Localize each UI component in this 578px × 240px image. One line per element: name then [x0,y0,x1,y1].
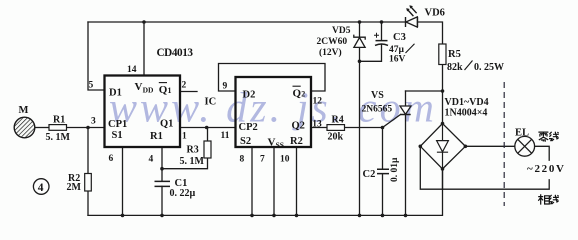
svg-text:~220V: ~220V [527,163,564,175]
svg-text:20k: 20k [328,132,344,143]
svg-text:11: 11 [221,131,230,141]
LED VD6 [417,17,419,27]
svg-text:C2: C2 [363,169,376,180]
svg-text:2M: 2M [67,182,82,193]
svg-text:Q1: Q1 [160,118,173,129]
svg-text:Q2: Q2 [292,121,305,132]
svg-text:1: 1 [182,132,187,142]
svg-text:V: V [268,136,276,148]
svg-text:CD4013: CD4013 [157,47,194,59]
svg-text:13: 13 [312,119,322,129]
wire lamp to neutral hook [535,146,550,160]
svg-text:1: 1 [168,86,172,95]
svg-text:14: 14 [127,65,137,75]
svg-text:R1: R1 [53,115,65,126]
wire VD6 to R5 [418,22,443,44]
resistor R5 [439,44,446,65]
svg-text:VD5: VD5 [332,26,351,36]
capacitor C3 polarized [375,41,388,46]
svg-text:4: 4 [149,155,154,165]
IC U1b box D2 [236,77,312,147]
wire R3 top [207,128,209,142]
svg-text:V: V [135,81,143,93]
wire SCR cathode [405,115,407,216]
svg-text:R3: R3 [187,145,199,156]
resistor R2 [85,174,92,192]
wire SCR anode [405,91,407,106]
svg-text:0. 22µ: 0. 22µ [170,188,196,199]
wire R2 branch [87,128,89,216]
wire bridge right to lamp [465,145,514,147]
svg-text:R5: R5 [448,49,461,60]
svg-text:R2: R2 [290,136,303,147]
svg-text:VS: VS [371,90,384,101]
svg-text:5. 1M: 5. 1M [46,132,71,143]
wire pin 10 [296,147,298,215]
wire pin 14 [143,22,145,76]
svg-text:R4: R4 [332,115,344,126]
wire bridge bottom [442,169,444,189]
wire pin 4 to C1 [161,147,163,215]
svg-text:EL: EL [515,127,529,138]
capacitor C1 [155,181,171,186]
svg-text:16V: 16V [389,54,406,64]
ground rail [88,169,443,216]
svg-text:2N6565: 2N6565 [362,105,393,115]
svg-text:0. 25W: 0. 25W [474,62,504,73]
zener diode VD5 [359,22,361,37]
svg-text:2CW60: 2CW60 [317,37,348,47]
wire R1 to CP1 [67,127,105,129]
svg-text:C3: C3 [393,32,406,43]
wire R3 bottom jog [162,158,208,169]
svg-text:D1: D1 [109,87,122,98]
IC U1a box D1 [105,76,181,148]
svg-text:1N4004×4: 1N4004×4 [445,107,488,118]
touch plate M [14,117,35,138]
label live wire (xiang xian) [538,194,559,204]
svg-text:R1: R1 [150,131,163,142]
wire Q2bar to D2 loop [219,64,326,92]
bridge inner diode [442,125,444,141]
wire R5 to bridge [442,65,444,124]
svg-text:4: 4 [38,182,44,194]
lamp EL [515,136,535,156]
svg-text:(12V): (12V) [319,47,342,58]
wire SCR anode to bridge top [406,90,443,92]
wire pin 7 [273,147,275,215]
resistor R1 [49,125,67,131]
svg-text:5: 5 [89,81,94,91]
resistor R3 [204,141,211,158]
svg-text:0. 01µ: 0. 01µ [390,157,400,182]
wire C3 bottom jog [360,45,382,62]
bridge rectifier diamond VD1-VD4 [420,124,465,169]
wire top VDD rail [88,21,406,23]
svg-text:CP1: CP1 [108,119,127,130]
svg-text:M: M [19,105,29,116]
wire M to R1 [35,127,49,129]
svg-text:3: 3 [91,117,96,127]
svg-text:6: 6 [109,154,114,164]
svg-text:VD6: VD6 [425,7,445,18]
wire VD5 ground branch [359,47,361,215]
svg-text:9: 9 [223,81,228,91]
svg-text:DD: DD [143,86,154,95]
wire pin 8 [251,147,253,215]
thyristor VS triangle [400,106,411,114]
svg-text:S1: S1 [112,130,123,141]
svg-text:VD1~VD4: VD1~VD4 [445,97,489,108]
wire bridge left to live line [420,146,549,189]
svg-text:8: 8 [240,155,245,165]
svg-text:CP2: CP2 [239,122,258,133]
label neutral wire (ling xian) [538,132,558,142]
svg-text:10: 10 [280,155,290,165]
wire left vertical to pin5 [88,22,105,90]
wire Q1 to CP2 [180,127,236,129]
wire SCR gate [383,115,401,128]
svg-text:5. 1M: 5. 1M [180,156,205,167]
wire R4 to gate node [345,127,383,129]
svg-text:7: 7 [260,155,265,165]
svg-text:Q: Q [293,87,302,99]
wire C2 branch [382,128,384,216]
figure number 4 [33,179,49,195]
svg-text:2: 2 [301,90,305,99]
svg-text:2: 2 [182,81,187,91]
svg-text:Q: Q [159,84,168,96]
svg-text:82k: 82k [447,62,463,73]
wire pin 6 [122,147,124,215]
capacitor C2 [377,169,389,173]
wire pin 2 stub [180,91,197,93]
mains dashed separation line [503,82,505,206]
resistor R4 [327,125,345,131]
svg-text:SS: SS [276,141,284,150]
svg-text:D2: D2 [243,89,256,100]
svg-text:IC: IC [205,96,217,107]
svg-text:12: 12 [313,97,323,107]
svg-text:S2: S2 [240,136,251,147]
wire pin 13 to R4 [311,127,327,129]
